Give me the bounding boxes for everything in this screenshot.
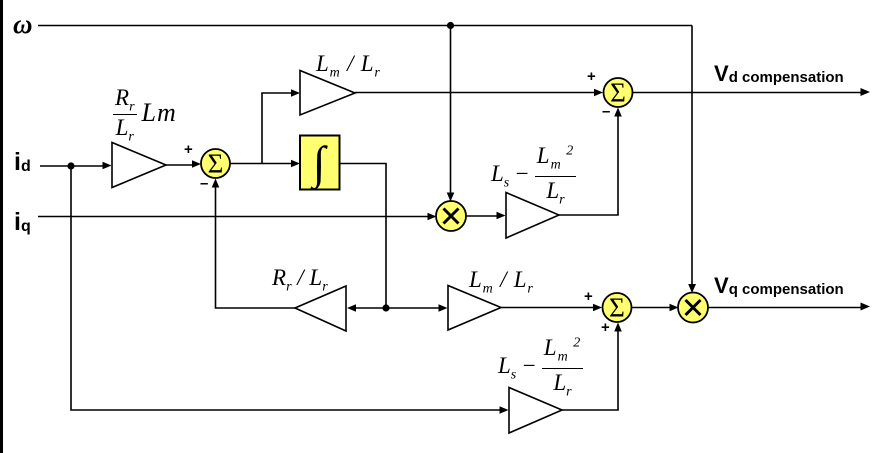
gain G3 triangle Rr/Lr left-pointing bbox=[295, 286, 346, 331]
wire G2 to summer S2 bbox=[355, 89, 603, 97]
node omega input label bbox=[13, 9, 33, 40]
label G4 value Lm/Lr bbox=[469, 268, 534, 291]
wire G5 to summer S2 minus input bbox=[559, 108, 622, 216]
label S3 plus sign top bbox=[584, 288, 593, 305]
wire G4 to summer S3 bbox=[501, 304, 602, 312]
wire G6 to summer S3 plus input bbox=[562, 323, 622, 411]
multiplier M2 bbox=[678, 293, 708, 323]
multiplier M1 bbox=[436, 201, 466, 231]
wire feedback node to gain G4 bbox=[386, 304, 448, 312]
svg-text:Σ: Σ bbox=[208, 149, 224, 179]
label S1 minus sign bbox=[200, 175, 208, 192]
label S3 plus sign bottom bbox=[601, 319, 610, 336]
label S2 minus sign bbox=[602, 103, 610, 120]
summer S1 bbox=[201, 149, 230, 179]
summer S3 bbox=[603, 293, 632, 323]
svg-text:Σ: Σ bbox=[610, 78, 626, 108]
wire omega branch down to multiplier M1 bbox=[447, 26, 455, 202]
wire feedback node to gain G3 bbox=[347, 304, 386, 312]
node iq input label bbox=[14, 208, 31, 237]
label G2 value Lm/Lr bbox=[316, 52, 381, 75]
wire id input bbox=[40, 162, 112, 170]
label G5 value Ls-Lm2/Lr bbox=[491, 144, 576, 202]
wire iq input to multiplier M1 bbox=[38, 213, 437, 221]
label G6 value Ls-Lm2/Lr bbox=[498, 336, 583, 394]
gain G5 triangle Ls-Lm2/Lr top bbox=[506, 193, 559, 239]
wire M2 output to Vq bbox=[708, 303, 870, 311]
gain G1 triangle (Rr/Lr)Lm bbox=[112, 143, 166, 188]
label S2 plus sign bbox=[587, 68, 596, 85]
label S1 plus sign bbox=[184, 141, 193, 158]
summer S2 bbox=[604, 78, 633, 108]
junction omega branch node bbox=[447, 22, 454, 29]
label Vq compensation output bbox=[714, 273, 844, 299]
label G3 value Rr/Lr bbox=[272, 266, 328, 289]
gain G2 triangle Lm/Lr top bbox=[300, 71, 355, 116]
integrator U1 box bbox=[300, 136, 340, 192]
wire G1 to summer S1 bbox=[166, 160, 201, 168]
wire M1 to gain G5 bbox=[466, 212, 506, 220]
wire omega down to multiplier M2 bbox=[688, 26, 696, 294]
svg-text:Σ: Σ bbox=[609, 293, 625, 323]
junction id branch node bbox=[67, 162, 74, 169]
wire omega horizontal bbox=[38, 25, 692, 27]
svg-text:∫: ∫ bbox=[310, 137, 328, 191]
label G1 value (Rr/Lr)Lm bbox=[113, 86, 177, 139]
gain G4 triangle Lm/Lr bottom bbox=[448, 286, 501, 331]
gain G6 triangle Ls-Lm2/Lr bottom bbox=[509, 388, 562, 434]
junction feedback node bbox=[382, 304, 389, 311]
wire G3 to summer S1 minus input bbox=[212, 179, 295, 309]
wire branch S1 output up to gain G2 bbox=[262, 89, 300, 163]
label Vd compensation output bbox=[714, 61, 844, 87]
wire integrator output down to feedback node bbox=[340, 164, 387, 309]
wire S3 to multiplier M2 bbox=[632, 304, 679, 312]
node id input label bbox=[14, 148, 31, 177]
wire S2 output to Vd bbox=[633, 88, 871, 96]
wire S1 to integrator U1 bbox=[230, 160, 300, 168]
wire id branch down to gain G6 bbox=[71, 166, 509, 414]
